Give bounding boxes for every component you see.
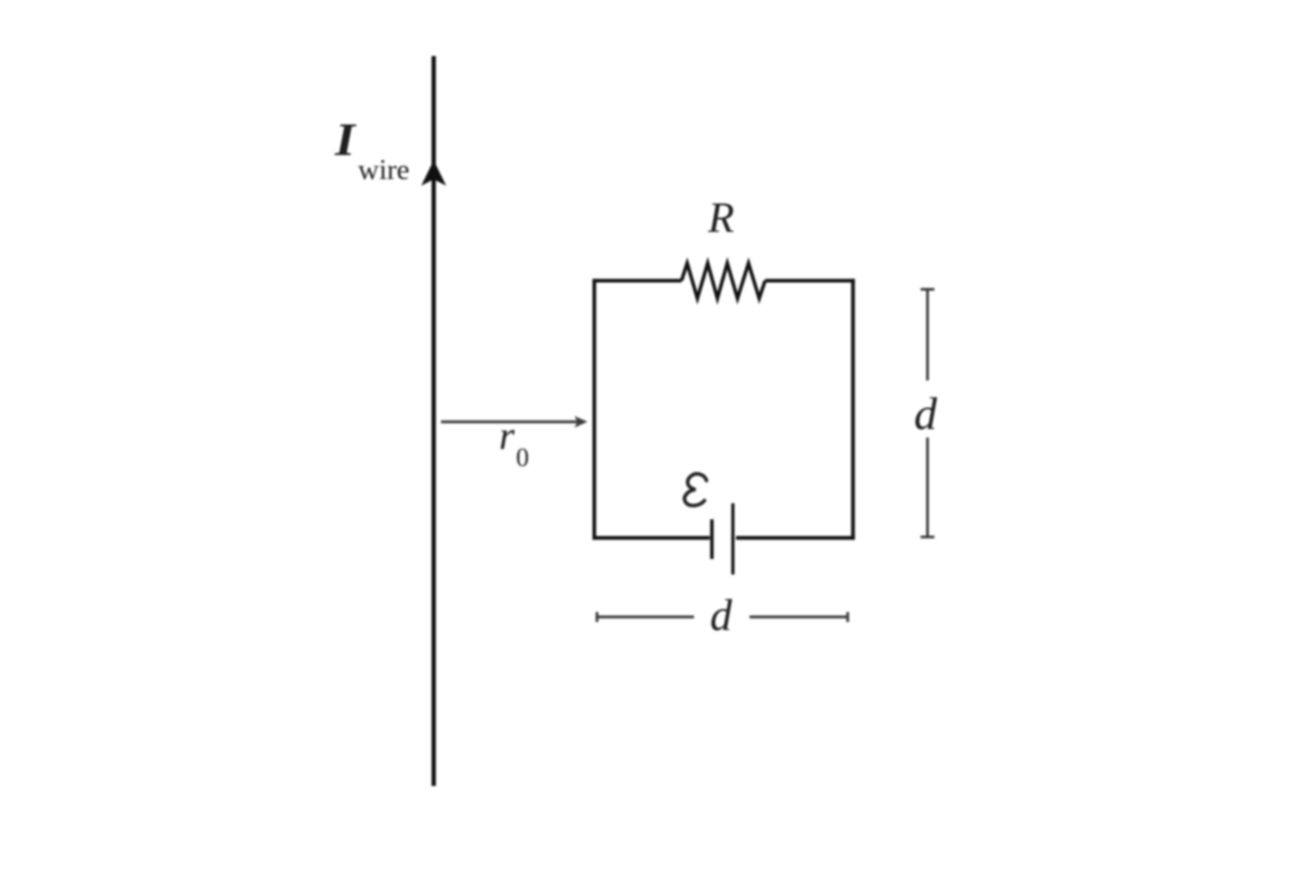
node: loop left side wire xyxy=(592,279,596,540)
svg-text:I: I xyxy=(334,114,357,166)
dimension line d (right side) lower segment xyxy=(926,438,929,538)
battery negative plate (short) xyxy=(710,519,713,559)
current direction arrowhead on wire xyxy=(421,160,446,186)
label r0 xyxy=(499,413,529,472)
dimension line d (bottom) left tick xyxy=(596,612,599,622)
wire: loop top-right segment xyxy=(765,279,855,283)
label EMF script E xyxy=(685,474,707,506)
resistor R zigzag xyxy=(682,263,766,298)
wire: long straight vertical wire xyxy=(432,56,436,786)
label I_wire xyxy=(334,114,410,186)
wire: loop bottom-left segment xyxy=(593,536,710,540)
svg-text:r: r xyxy=(499,413,515,458)
dimension arrow r0 from wire to loop xyxy=(441,420,577,423)
wire: loop top-left segment xyxy=(593,279,682,283)
dimension line d (bottom) right tick xyxy=(846,612,849,622)
dimension line d (right side) top cap xyxy=(921,288,935,291)
svg-text:d: d xyxy=(914,388,938,439)
wire: loop right side xyxy=(851,279,855,540)
svg-text:d: d xyxy=(710,591,733,640)
svg-text:wire: wire xyxy=(358,154,410,186)
battery positive plate (long) xyxy=(731,503,734,574)
dimension line d (bottom) left segment xyxy=(597,615,694,618)
dimension line d (bottom) right segment xyxy=(750,615,848,618)
wire: loop bottom-right segment xyxy=(736,536,855,540)
dimension line d (right side) bottom cap xyxy=(921,536,935,539)
svg-text:R: R xyxy=(707,195,734,242)
svg-text:0: 0 xyxy=(516,443,529,472)
dimension line d (right side) upper segment xyxy=(926,289,929,380)
